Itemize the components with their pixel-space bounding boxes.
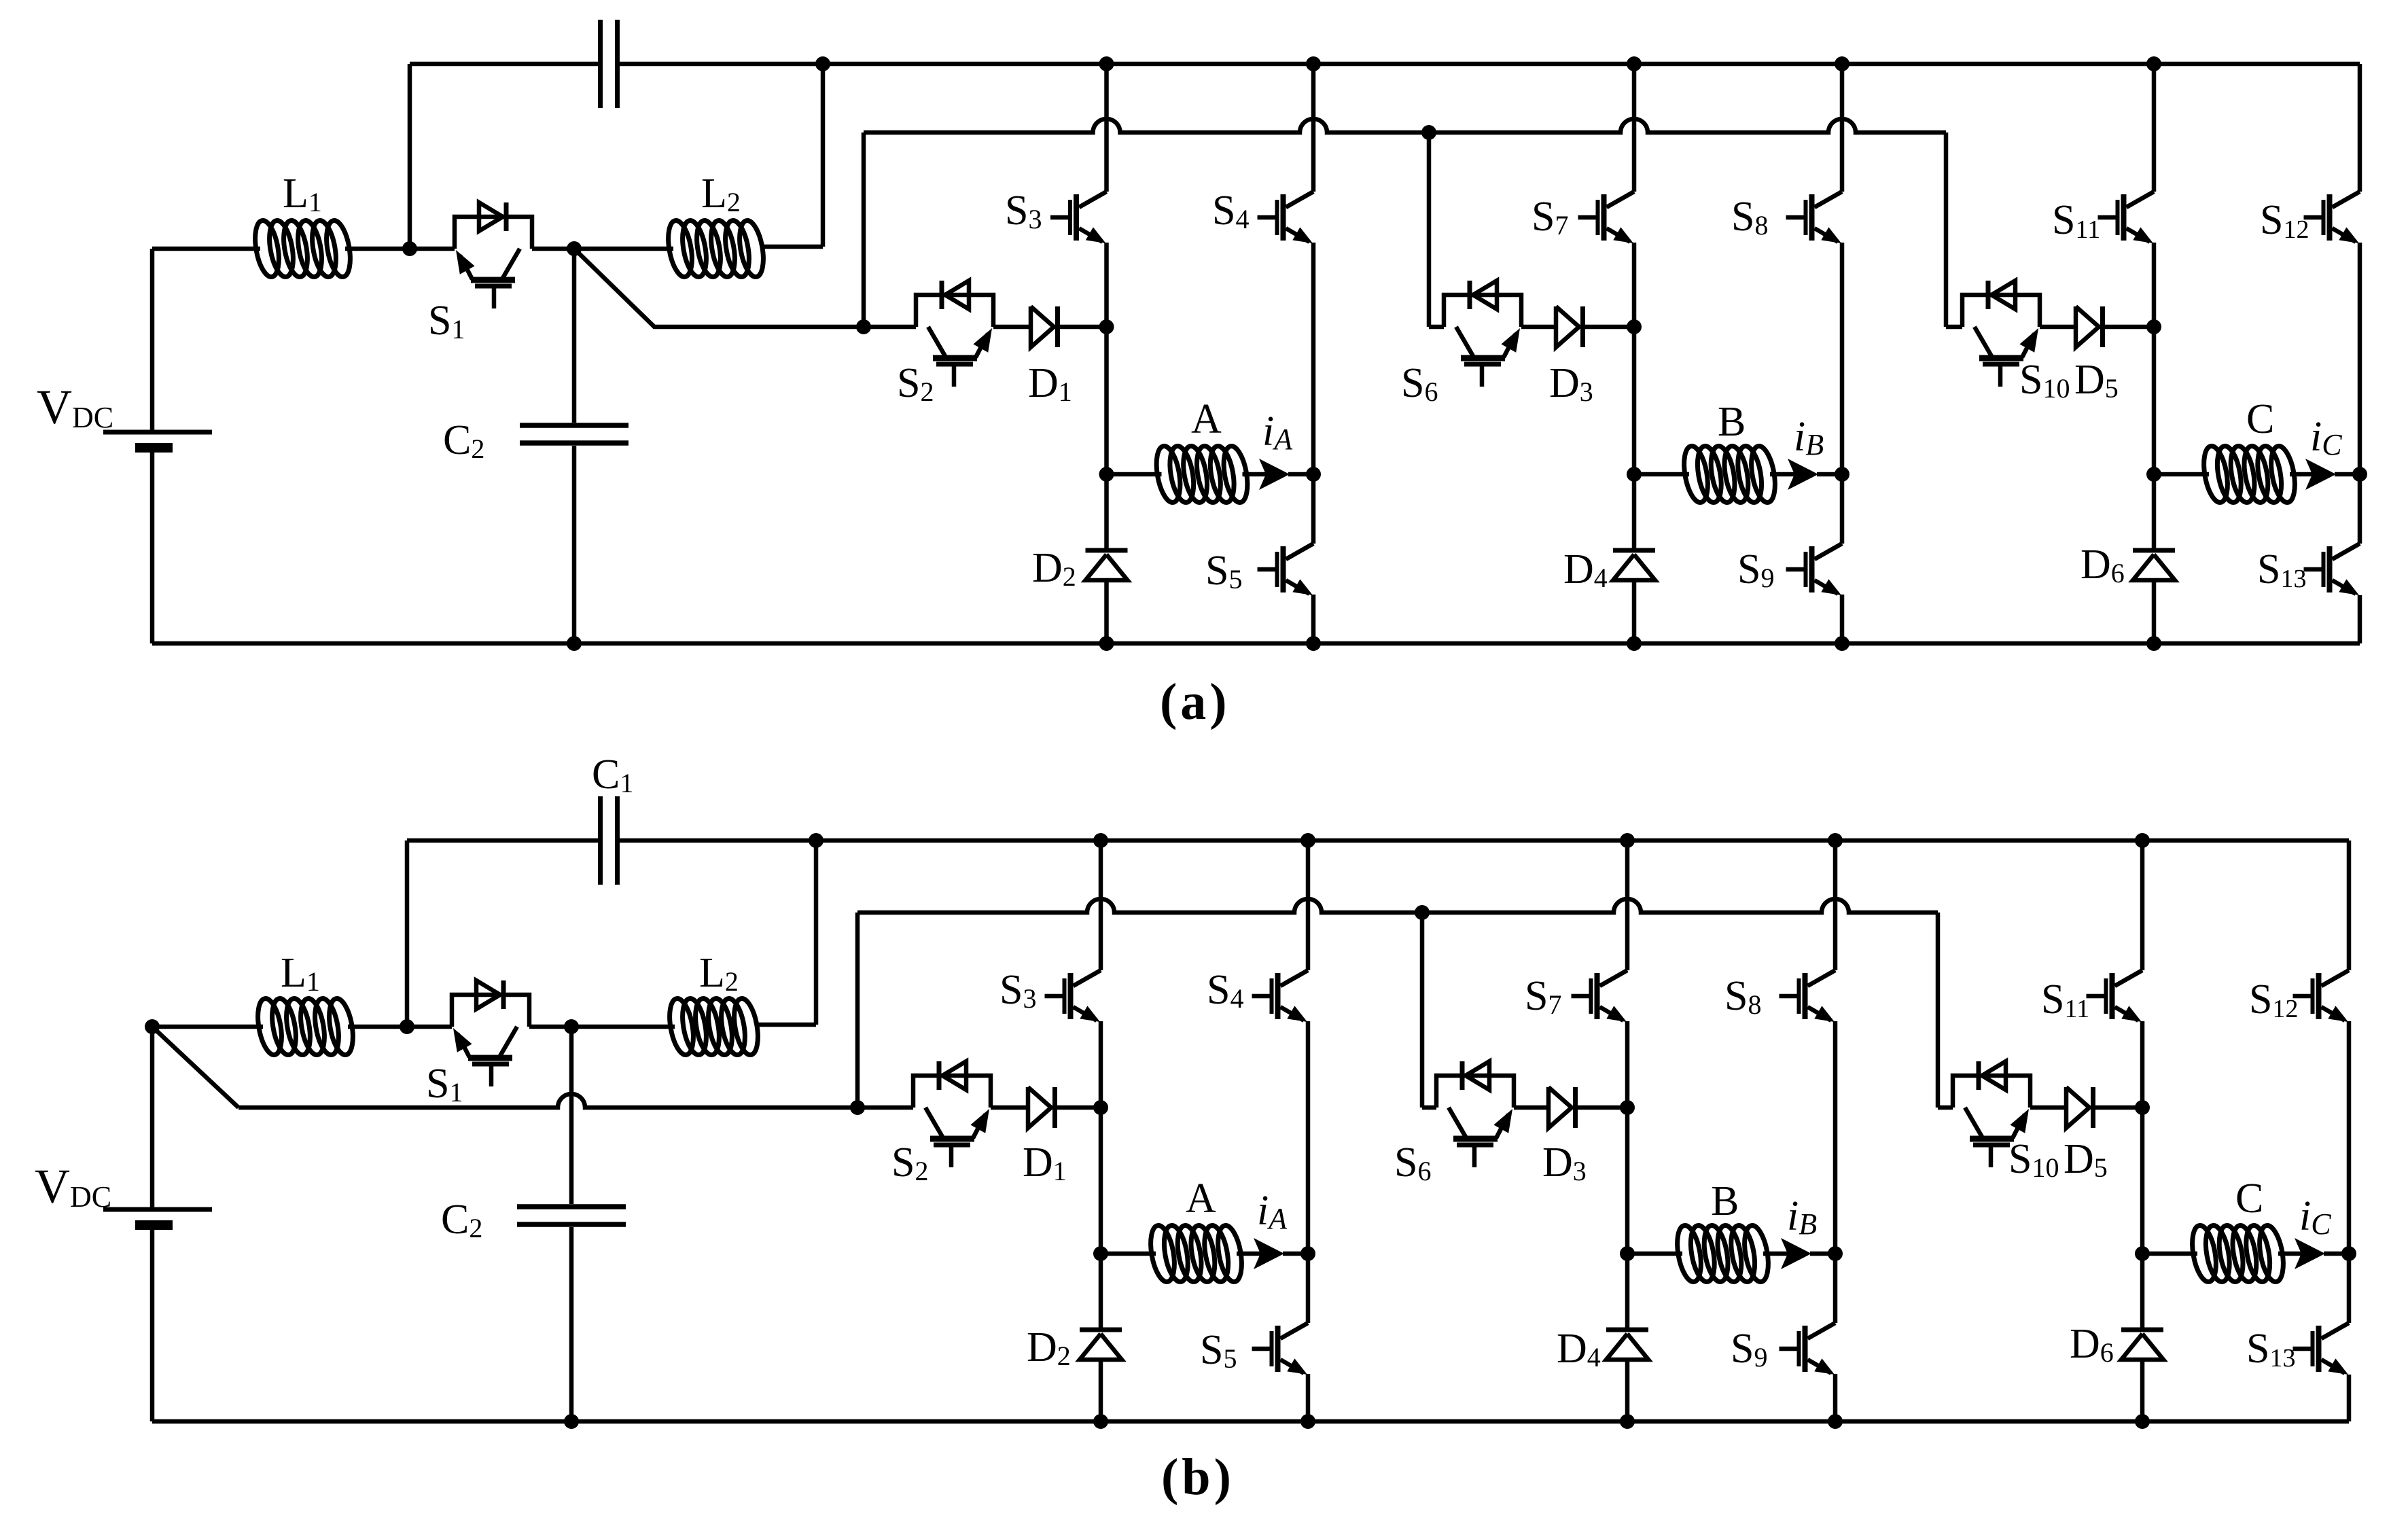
node bottom B right b <box>1828 1414 1843 1429</box>
wire D2 to bottom b <box>1099 1360 1103 1421</box>
wire box to diode a <box>993 325 1031 330</box>
wire box to diode b <box>991 1105 1028 1110</box>
wire S10 feed b <box>1938 913 1953 1108</box>
wire D4 to bottom a <box>1632 580 1637 643</box>
wire mid rail a <box>864 119 1946 132</box>
wire battery to L1 b <box>152 1025 263 1029</box>
wire phase to S13 a <box>2358 474 2362 544</box>
wire S8 collector b <box>1833 840 1838 970</box>
wire diode to node a <box>1585 325 1634 330</box>
node phase left A b <box>1093 1246 1108 1261</box>
wire phase to S13 b <box>2347 1254 2352 1323</box>
wire S1 to node a <box>532 247 673 251</box>
node bottom B left b <box>1620 1414 1635 1429</box>
node S1-L2 b <box>564 1019 579 1034</box>
svg-text:A: A <box>1191 396 1222 442</box>
node top rail S4 a <box>1306 56 1321 71</box>
node top rail S3 a <box>1099 56 1114 71</box>
svg-text:A: A <box>1186 1175 1216 1222</box>
wire B-feed riser b <box>1422 913 1436 1108</box>
wire S8 emitter to phase a <box>1840 243 1845 474</box>
node top rail L2 riser a <box>815 56 830 71</box>
node phase left C a <box>2146 467 2161 482</box>
wire S4 collector a <box>1311 64 1316 192</box>
wire winding to arrow B a <box>1770 472 1795 477</box>
wire S11 collector b <box>2140 840 2145 970</box>
node phase left C b <box>2135 1246 2150 1261</box>
wire S1 to node b <box>529 1025 675 1029</box>
wire arrow to node C b <box>2324 1252 2349 1256</box>
wire S12 collector b <box>2347 840 2352 970</box>
switch S1 a <box>455 202 532 308</box>
transistor S12 a <box>2304 192 2360 243</box>
wire S5 emitter to bottom a <box>1311 595 1316 643</box>
node mid rail B-feed a <box>1421 125 1436 140</box>
wire left riser from top rail b <box>405 840 410 1027</box>
node after L1 b <box>400 1019 414 1034</box>
wire winding to arrow A b <box>1237 1252 1261 1256</box>
wire S3 collector b <box>1099 840 1103 970</box>
wire D6 to bottom b <box>2140 1360 2145 1421</box>
node battery tap b <box>145 1019 160 1034</box>
wire phase left to diode D6 b <box>2140 1254 2145 1328</box>
battery VDC b <box>103 1027 212 1421</box>
switch S2 a <box>916 281 993 387</box>
wire phase left to diode D4 b <box>1625 1254 1630 1328</box>
diode series D5 a <box>2076 306 2103 347</box>
switch S1 b <box>452 980 529 1086</box>
node mid-rail riser foot b <box>850 1100 865 1115</box>
transistor S4 a <box>1258 192 1314 243</box>
node diode output B a <box>1627 319 1642 334</box>
inductor L1 a <box>251 219 354 279</box>
arrow current C b <box>2295 1238 2325 1269</box>
wire box to diode b <box>1514 1105 1548 1110</box>
diode D4 b <box>1606 1330 1648 1360</box>
wire diode to node a <box>2105 325 2154 330</box>
wire mid rail b <box>857 899 1938 913</box>
wire diode to node a <box>1060 325 1107 330</box>
wire arrow to node B b <box>1810 1252 1835 1256</box>
wire L1 to S1 node a <box>345 247 455 251</box>
wire S11 emitter to node b <box>2140 1021 2145 1108</box>
wire phase C left stub b <box>2142 1252 2197 1256</box>
node top rail S7 a <box>1627 56 1642 71</box>
switch S10 b <box>1953 1061 2030 1167</box>
node diode output C b <box>2135 1100 2150 1115</box>
node bottom A right a <box>1306 636 1321 651</box>
wire arrow to node A a <box>1288 472 1313 477</box>
wire S8 emitter to phase b <box>1833 1021 1838 1254</box>
wire arrow to node C a <box>2335 472 2360 477</box>
node top rail S11 a <box>2146 56 2161 71</box>
wire diode to node b <box>1057 1105 1101 1110</box>
wire to phase node C b <box>2140 1108 2145 1254</box>
wire S8 collector a <box>1840 64 1845 192</box>
wire bottom rail b <box>152 1419 2349 1424</box>
capacitor C1 b <box>601 796 618 885</box>
diode D2 b <box>1080 1330 1122 1360</box>
node mid rail B-feed b <box>1415 905 1430 920</box>
node top rail L2 riser b <box>809 833 824 848</box>
svg-text:B: B <box>1711 1178 1739 1224</box>
node diode output A b <box>1093 1100 1108 1115</box>
wire battery to L1 a <box>152 247 260 251</box>
wire phase left to diode D6 a <box>2152 474 2157 548</box>
transistor S8 b <box>1780 970 1836 1022</box>
wire phase B left stub b <box>1627 1252 1682 1256</box>
node diode output C a <box>2146 319 2161 334</box>
node top rail S7 b <box>1620 833 1635 848</box>
arrow current C a <box>2305 459 2336 490</box>
diode D2 a <box>1086 550 1128 580</box>
wire to phase node C a <box>2152 327 2157 474</box>
node phase right B a <box>1835 467 1849 482</box>
transistor S9 b <box>1780 1323 1836 1375</box>
inductor L2 b <box>666 997 762 1057</box>
node phase left A a <box>1099 467 1114 482</box>
inductor phase winding A a <box>1152 444 1251 504</box>
transistor S5 a <box>1258 544 1314 595</box>
diode series D1 b <box>1028 1087 1055 1128</box>
diode series D3 a <box>1556 306 1583 347</box>
node bottom C left b <box>2135 1414 2150 1429</box>
wire diagonal feed from battery node b <box>152 1027 913 1108</box>
inductor phase winding C a <box>2200 444 2299 504</box>
wire C2 riser b <box>569 1027 574 1421</box>
node top rail S4 b <box>1300 833 1315 848</box>
wire D2 to bottom a <box>1104 580 1109 643</box>
node phase right B b <box>1828 1246 1843 1261</box>
diode series D3 b <box>1548 1087 1576 1128</box>
arrow current A a <box>1259 459 1290 490</box>
node phase left B b <box>1620 1246 1635 1261</box>
diode series D1 a <box>1031 306 1058 347</box>
wire to phase node A b <box>1099 1108 1103 1254</box>
inductor L2 a <box>665 219 767 279</box>
transistor S13 a <box>2304 544 2360 595</box>
wire S4 emitter to phase b <box>1306 1021 1311 1254</box>
wire S7 collector a <box>1632 64 1637 192</box>
wire S7 emitter to node a <box>1632 243 1637 327</box>
switch S2 b <box>913 1061 991 1167</box>
wire arrow to node A b <box>1283 1252 1308 1256</box>
wire top rail a <box>410 62 601 67</box>
wire S7 collector b <box>1625 840 1630 970</box>
svg-text:(a): (a) <box>1160 673 1230 730</box>
node bottom rail C2 b <box>564 1414 579 1429</box>
wire S12 emitter to phase b <box>2347 1021 2352 1254</box>
wire S9 emitter to bottom b <box>1833 1374 1838 1421</box>
wire S7 emitter to node b <box>1625 1021 1630 1108</box>
node diode output B b <box>1620 1100 1635 1115</box>
node phase right A a <box>1306 467 1321 482</box>
wire S9 emitter to bottom a <box>1840 595 1845 643</box>
wire box to diode a <box>2040 325 2076 330</box>
wire phase A left stub a <box>1107 472 1162 477</box>
capacitor C2 b <box>517 1207 626 1224</box>
wire phase to S5 b <box>1306 1254 1311 1323</box>
battery VDC a <box>103 249 212 643</box>
node phase right C a <box>2352 467 2367 482</box>
wire bottom right riser b <box>2347 1375 2352 1421</box>
node diode output A a <box>1099 319 1114 334</box>
wire S3 emitter to node b <box>1099 1021 1103 1108</box>
wire phase C left stub a <box>2154 472 2209 477</box>
transistor S11 a <box>2098 192 2155 243</box>
wire to phase node B b <box>1625 1108 1630 1254</box>
node phase right A b <box>1300 1246 1315 1261</box>
transistor S7 b <box>1572 970 1628 1022</box>
wire L1 to S1 node b <box>348 1025 452 1029</box>
arrow current B a <box>1788 459 1818 490</box>
wire phase left to diode D2 a <box>1104 474 1109 548</box>
transistor S11 b <box>2087 970 2143 1022</box>
wire to phase node B a <box>1632 327 1637 474</box>
capacitor C2 a <box>520 425 628 443</box>
wire bottom rail a <box>152 641 2360 646</box>
wire to phase node A a <box>1104 327 1109 474</box>
node after L1 a <box>402 241 417 256</box>
node phase right C b <box>2341 1246 2356 1261</box>
wire phase to S9 a <box>1840 474 1845 544</box>
wire D4 to bottom b <box>1625 1360 1630 1421</box>
transistor S13 b <box>2293 1323 2350 1375</box>
transistor S5 b <box>1252 1323 1309 1375</box>
node phase left B a <box>1627 467 1642 482</box>
switch S6 b <box>1436 1061 1514 1167</box>
wire diode to node b <box>2095 1105 2142 1110</box>
node bottom A left a <box>1099 636 1114 651</box>
wire S3 collector a <box>1104 64 1109 192</box>
wire winding to arrow C a <box>2290 472 2313 477</box>
wire B-feed riser a <box>1429 132 1444 327</box>
wire phase left to diode D2 b <box>1099 1254 1103 1328</box>
wire phase B left stub a <box>1634 472 1689 477</box>
node top rail S3 b <box>1093 833 1108 848</box>
node bottom rail C2 a <box>567 636 582 651</box>
wire box to diode b <box>2030 1105 2066 1110</box>
transistor S4 b <box>1252 970 1309 1022</box>
wire winding to arrow B b <box>1763 1252 1788 1256</box>
wire S4 collector b <box>1306 840 1311 970</box>
wire L2 riser a <box>762 64 823 247</box>
svg-text:C: C <box>2246 396 2274 442</box>
wire phase A left stub b <box>1101 1252 1156 1256</box>
wire mid-rail riser a <box>862 132 866 327</box>
wire S5 emitter to bottom b <box>1306 1374 1311 1421</box>
transistor S7 a <box>1578 192 1635 243</box>
node bottom A right b <box>1300 1414 1315 1429</box>
switch S10 a <box>1962 281 2040 387</box>
inductor phase winding B b <box>1674 1224 1772 1284</box>
wire top rail right section b <box>618 838 2350 843</box>
inductor L1 b <box>254 997 357 1057</box>
transistor S12 b <box>2293 970 2350 1022</box>
node bottom A left b <box>1093 1414 1108 1429</box>
wire S4 emitter to phase a <box>1311 243 1316 474</box>
wire phase left to diode D4 a <box>1632 474 1637 548</box>
inductor phase winding B a <box>1680 444 1779 504</box>
wire diagonal feed from S1 node a <box>574 249 916 327</box>
node top rail S11 b <box>2135 833 2150 848</box>
node top rail S8 a <box>1835 56 1849 71</box>
wire S12 collector a <box>2358 64 2362 192</box>
node mid-rail riser foot a <box>856 319 871 334</box>
transistor S3 a <box>1050 192 1107 243</box>
wire top rail b <box>407 838 601 843</box>
inductor phase winding A b <box>1147 1224 1245 1284</box>
switch S6 a <box>1444 281 1521 387</box>
wire L2 riser b <box>757 840 816 1025</box>
node bottom B left a <box>1627 636 1642 651</box>
wire left riser from top rail a <box>408 64 412 249</box>
svg-text:(b): (b) <box>1161 1449 1235 1506</box>
diode series D5 b <box>2066 1087 2093 1128</box>
wire arrow to node B a <box>1817 472 1842 477</box>
wire S11 emitter to node a <box>2152 243 2157 327</box>
wire phase to S9 b <box>1833 1254 1838 1323</box>
svg-text:C: C <box>2235 1175 2263 1222</box>
wire mid-rail riser b <box>855 913 860 1108</box>
wire D6 to bottom a <box>2152 580 2157 643</box>
wire S12 emitter to phase a <box>2358 243 2362 474</box>
diode D6 b <box>2121 1330 2163 1360</box>
svg-text:B: B <box>1718 399 1746 445</box>
transistor S3 b <box>1045 970 1101 1022</box>
transistor S8 a <box>1786 192 1843 243</box>
transistor S9 a <box>1786 544 1843 595</box>
wire phase to S5 a <box>1311 474 1316 544</box>
wire bottom right riser a <box>2358 595 2362 643</box>
wire box to diode a <box>1521 325 1556 330</box>
arrow current B b <box>1781 1238 1811 1269</box>
wire S3 emitter to node a <box>1104 243 1109 327</box>
capacitor C1 a <box>601 20 618 108</box>
node top rail S8 b <box>1828 833 1843 848</box>
node bottom B right a <box>1835 636 1849 651</box>
node bottom C left a <box>2146 636 2161 651</box>
wire diode to node b <box>1578 1105 1627 1110</box>
wire S11 collector a <box>2152 64 2157 192</box>
arrow current A b <box>1254 1238 1284 1269</box>
wire S10 feed a <box>1946 132 1962 327</box>
node S1-L2 a <box>567 241 582 256</box>
wire C2 riser a <box>572 249 577 643</box>
wire winding to arrow C b <box>2278 1252 2302 1256</box>
diode D6 a <box>2133 550 2175 580</box>
diode D4 a <box>1613 550 1655 580</box>
wire top rail right section a <box>618 62 2360 67</box>
inductor phase winding C b <box>2189 1224 2287 1284</box>
wire winding to arrow A a <box>1243 472 1267 477</box>
